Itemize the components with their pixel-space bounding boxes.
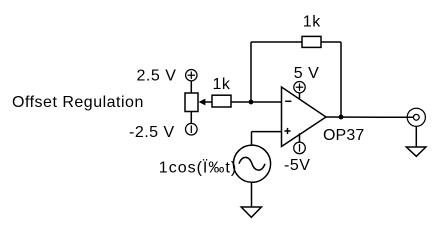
wire feedback left leg	[250, 42, 252, 102]
svg-text:1cos(Ï‰t): 1cos(Ï‰t)	[159, 159, 237, 177]
wire pot bottom to terminal-	[190, 112, 192, 124]
wire feedback top left	[251, 41, 302, 43]
svg-text:1k: 1k	[213, 76, 231, 93]
potentiometer R3 body	[185, 93, 198, 112]
svg-text:1k: 1k	[303, 13, 321, 30]
junction node output	[339, 115, 344, 120]
ground GND1 below source	[241, 207, 261, 217]
wire feedback top right	[321, 41, 341, 43]
op-amp V- terminal	[294, 142, 306, 154]
wire terminal+ to pot top	[190, 81, 192, 93]
voltage source V1 circle	[233, 145, 270, 182]
op-amp V+ pin wire	[299, 93, 301, 99]
junction node inverting input	[249, 100, 254, 105]
ground GND2 below output port	[406, 147, 426, 156]
op-amp V+ terminal	[294, 82, 305, 93]
wire output port to ground	[415, 126, 417, 147]
op-amp V- pin wire	[299, 133, 301, 142]
wire feedback right leg	[340, 42, 342, 117]
wire op-amp output	[326, 116, 413, 118]
resistor R1 body	[212, 95, 231, 107]
potentiometer wiper arrow	[199, 99, 206, 106]
svg-text:5 V: 5 V	[294, 65, 320, 82]
op-amp minus sign	[285, 100, 291, 102]
wire source top vertical	[251, 132, 253, 146]
svg-text:-2.5 V: -2.5 V	[129, 124, 175, 141]
resistor R2 body	[302, 36, 321, 47]
svg-text:-5V: -5V	[284, 157, 310, 174]
op-amp plus sign	[284, 128, 290, 134]
wire wiper to R1	[205, 101, 213, 103]
output port P3 inner circle	[413, 114, 419, 120]
wire R1 to op-amp inverting input	[231, 101, 282, 103]
voltage source V1 sine wave	[239, 157, 265, 170]
svg-text:OP37: OP37	[323, 127, 364, 144]
svg-text:2.5 V: 2.5 V	[137, 67, 177, 84]
wire source bottom vertical	[251, 182, 253, 207]
terminal P2 -2.5V	[186, 123, 198, 135]
wire source to op-amp noninverting input	[252, 131, 282, 133]
output port P3 outer circle	[407, 108, 425, 126]
op-amp U1 triangle	[282, 87, 327, 147]
svg-text:Offset Regulation: Offset Regulation	[12, 94, 144, 111]
terminal P1 +2.5V	[186, 70, 197, 81]
